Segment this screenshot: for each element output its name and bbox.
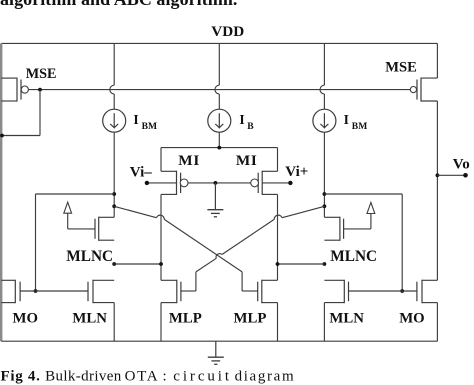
wire MI right drop xyxy=(277,148,279,172)
label MLNC right xyxy=(330,248,377,265)
current source IBM left xyxy=(103,109,126,132)
svg-text:MLN: MLN xyxy=(72,311,107,327)
transistor MLNC (left) xyxy=(95,217,114,241)
svg-text:algorithm and ABC algorithm.: algorithm and ABC algorithm. xyxy=(0,0,237,9)
label MI right xyxy=(236,152,258,169)
wire MI left drop xyxy=(160,148,162,172)
wire left mirror drop xyxy=(35,194,37,291)
caption Fig 4 xyxy=(1,368,296,384)
wire Vo lead xyxy=(437,174,465,176)
wire left rail xyxy=(0,43,2,341)
node MI tail dot xyxy=(217,146,221,150)
svg-text:MO: MO xyxy=(13,311,38,327)
svg-text:I: I xyxy=(239,112,244,127)
clipped header text xyxy=(0,0,237,9)
node diode tie at rail xyxy=(0,134,4,138)
transistor MI (right) xyxy=(251,171,278,195)
wire VDD top rail xyxy=(1,42,437,44)
svg-text:Vo: Vo xyxy=(453,156,470,172)
wire MLN-right ground drop xyxy=(323,303,325,342)
svg-text:I: I xyxy=(344,112,349,127)
node MI gate ground dot xyxy=(214,181,218,185)
wire left link xyxy=(114,263,161,265)
node Vi- terminal xyxy=(145,181,149,185)
wire right mirror feed xyxy=(324,193,402,195)
ground upper xyxy=(207,183,223,217)
svg-text:VDD: VDD xyxy=(211,23,244,40)
wire MLN-MO gate wire right xyxy=(349,290,417,292)
node MLP-left in dot xyxy=(159,262,163,266)
wire left mirror feed xyxy=(36,193,115,195)
node MLNC-left out dot xyxy=(112,262,116,266)
node MLNC-right out dot xyxy=(323,262,327,266)
svg-text:Vi–: Vi– xyxy=(130,164,152,180)
wire MLP-right gate lead xyxy=(242,272,258,291)
wire IBM-left drop upper xyxy=(110,43,114,109)
transistor MLN (left) xyxy=(88,280,114,304)
wire MI-left bulk input xyxy=(147,182,177,184)
wire MLN-left ground drop xyxy=(113,303,115,342)
label MLP left xyxy=(169,311,202,327)
svg-text:Vi+: Vi+ xyxy=(285,164,308,180)
svg-text:MO: MO xyxy=(399,311,424,327)
node MO/MLN gate junction left xyxy=(34,289,38,293)
svg-text:BM: BM xyxy=(352,121,367,132)
node IBM-right diag dot xyxy=(323,204,327,208)
label I_BM left xyxy=(133,112,157,132)
label MO right xyxy=(399,311,424,327)
current source IB xyxy=(208,109,231,132)
node Vo junction xyxy=(436,173,440,177)
transistor MLP (right) xyxy=(258,280,278,304)
wire MLP-right ground drop xyxy=(277,303,279,342)
wire cross-couple D2 (left MLP gate to right node) xyxy=(196,206,325,272)
svg-text:MI: MI xyxy=(236,152,258,169)
wire right mirror drop xyxy=(401,194,403,291)
transistor MI (left) xyxy=(161,171,188,195)
wire cross-couple D1 (right MLP gate to left node) xyxy=(114,206,242,272)
wire right rail middle xyxy=(436,101,438,280)
label Vo xyxy=(453,156,470,172)
transistor MO (right) xyxy=(417,280,438,304)
wire right rail lower xyxy=(436,303,438,342)
transistor MSE (left PMOS) xyxy=(1,78,28,102)
svg-text:BM: BM xyxy=(142,121,157,132)
label I_BM right xyxy=(344,112,368,132)
svg-text:B: B xyxy=(247,121,254,132)
transistor MLNC (right) xyxy=(324,217,343,241)
svg-text:MLNC: MLNC xyxy=(330,248,377,265)
net VDD label xyxy=(211,23,244,40)
bulk arrow left xyxy=(64,202,95,229)
wire MI source rail xyxy=(161,147,278,149)
label MSE right xyxy=(385,59,417,75)
svg-text:MLP: MLP xyxy=(234,311,267,327)
wire IB drop lower xyxy=(218,132,220,147)
wire IBM-right drop lower xyxy=(323,132,325,217)
svg-text:MLN: MLN xyxy=(329,311,364,327)
wire MSE diode tie horizontal xyxy=(2,135,40,137)
bulk arrow right xyxy=(344,202,375,229)
node IBM-right branch dot xyxy=(323,192,327,196)
wire MLP-left gate lead xyxy=(181,272,196,291)
wire IBM-right drop upper xyxy=(320,43,324,109)
label MLN left xyxy=(72,311,107,327)
svg-text:MSE: MSE xyxy=(385,59,417,75)
transistor MO (left) xyxy=(1,280,20,304)
current source IBM right xyxy=(313,109,336,132)
wire MO-MLN gate wire left xyxy=(20,290,88,292)
wire bottom rail xyxy=(1,340,437,342)
wire left inner vertical xyxy=(160,194,162,280)
wire MI gates to ground xyxy=(188,182,252,184)
wire IBM-left drop lower xyxy=(113,132,115,217)
label Vi- xyxy=(130,164,152,180)
transistor MLP (left) xyxy=(161,280,181,304)
label Vi+ xyxy=(285,164,308,180)
label MI left xyxy=(178,152,200,169)
node IBM-left diag dot xyxy=(112,204,116,208)
wire right inner vertical xyxy=(277,194,279,280)
label MLN right xyxy=(329,311,364,327)
svg-text:Fig 4.Bulk-drivenOTA:circuitdi: Fig 4.Bulk-drivenOTA:circuitdiagram xyxy=(1,368,296,384)
wire MSE gate bias net xyxy=(28,89,410,91)
ground lower xyxy=(208,341,224,364)
label I_B xyxy=(239,112,254,132)
label MLNC left xyxy=(66,248,113,265)
label MSE left xyxy=(26,66,57,82)
wire IB drop upper xyxy=(215,43,219,109)
node MSE gate-drain tie dot xyxy=(38,88,42,92)
svg-text:MSE: MSE xyxy=(26,66,57,82)
transistor MLN (right) xyxy=(324,280,348,304)
svg-text:MLNC: MLNC xyxy=(66,248,113,265)
node MO/MLN gate junction right xyxy=(400,289,404,293)
node MLP-right in dot xyxy=(276,262,280,266)
svg-text:MLP: MLP xyxy=(169,311,202,327)
wire MLP-left ground drop xyxy=(160,303,162,342)
node Vo terminal xyxy=(463,173,468,178)
wire MSE diode tie vertical xyxy=(39,90,41,136)
svg-text:MI: MI xyxy=(178,152,200,169)
transistor MSE (right PMOS) xyxy=(410,78,437,102)
svg-text:I: I xyxy=(133,112,138,127)
label MLP right xyxy=(234,311,267,327)
node IBM-left branch dot xyxy=(112,192,116,196)
wire MI-right bulk input xyxy=(262,182,290,184)
node Vi+ terminal xyxy=(288,181,292,185)
wire right link xyxy=(278,263,325,265)
label MO left xyxy=(13,311,38,327)
wire right rail upper xyxy=(436,43,438,78)
